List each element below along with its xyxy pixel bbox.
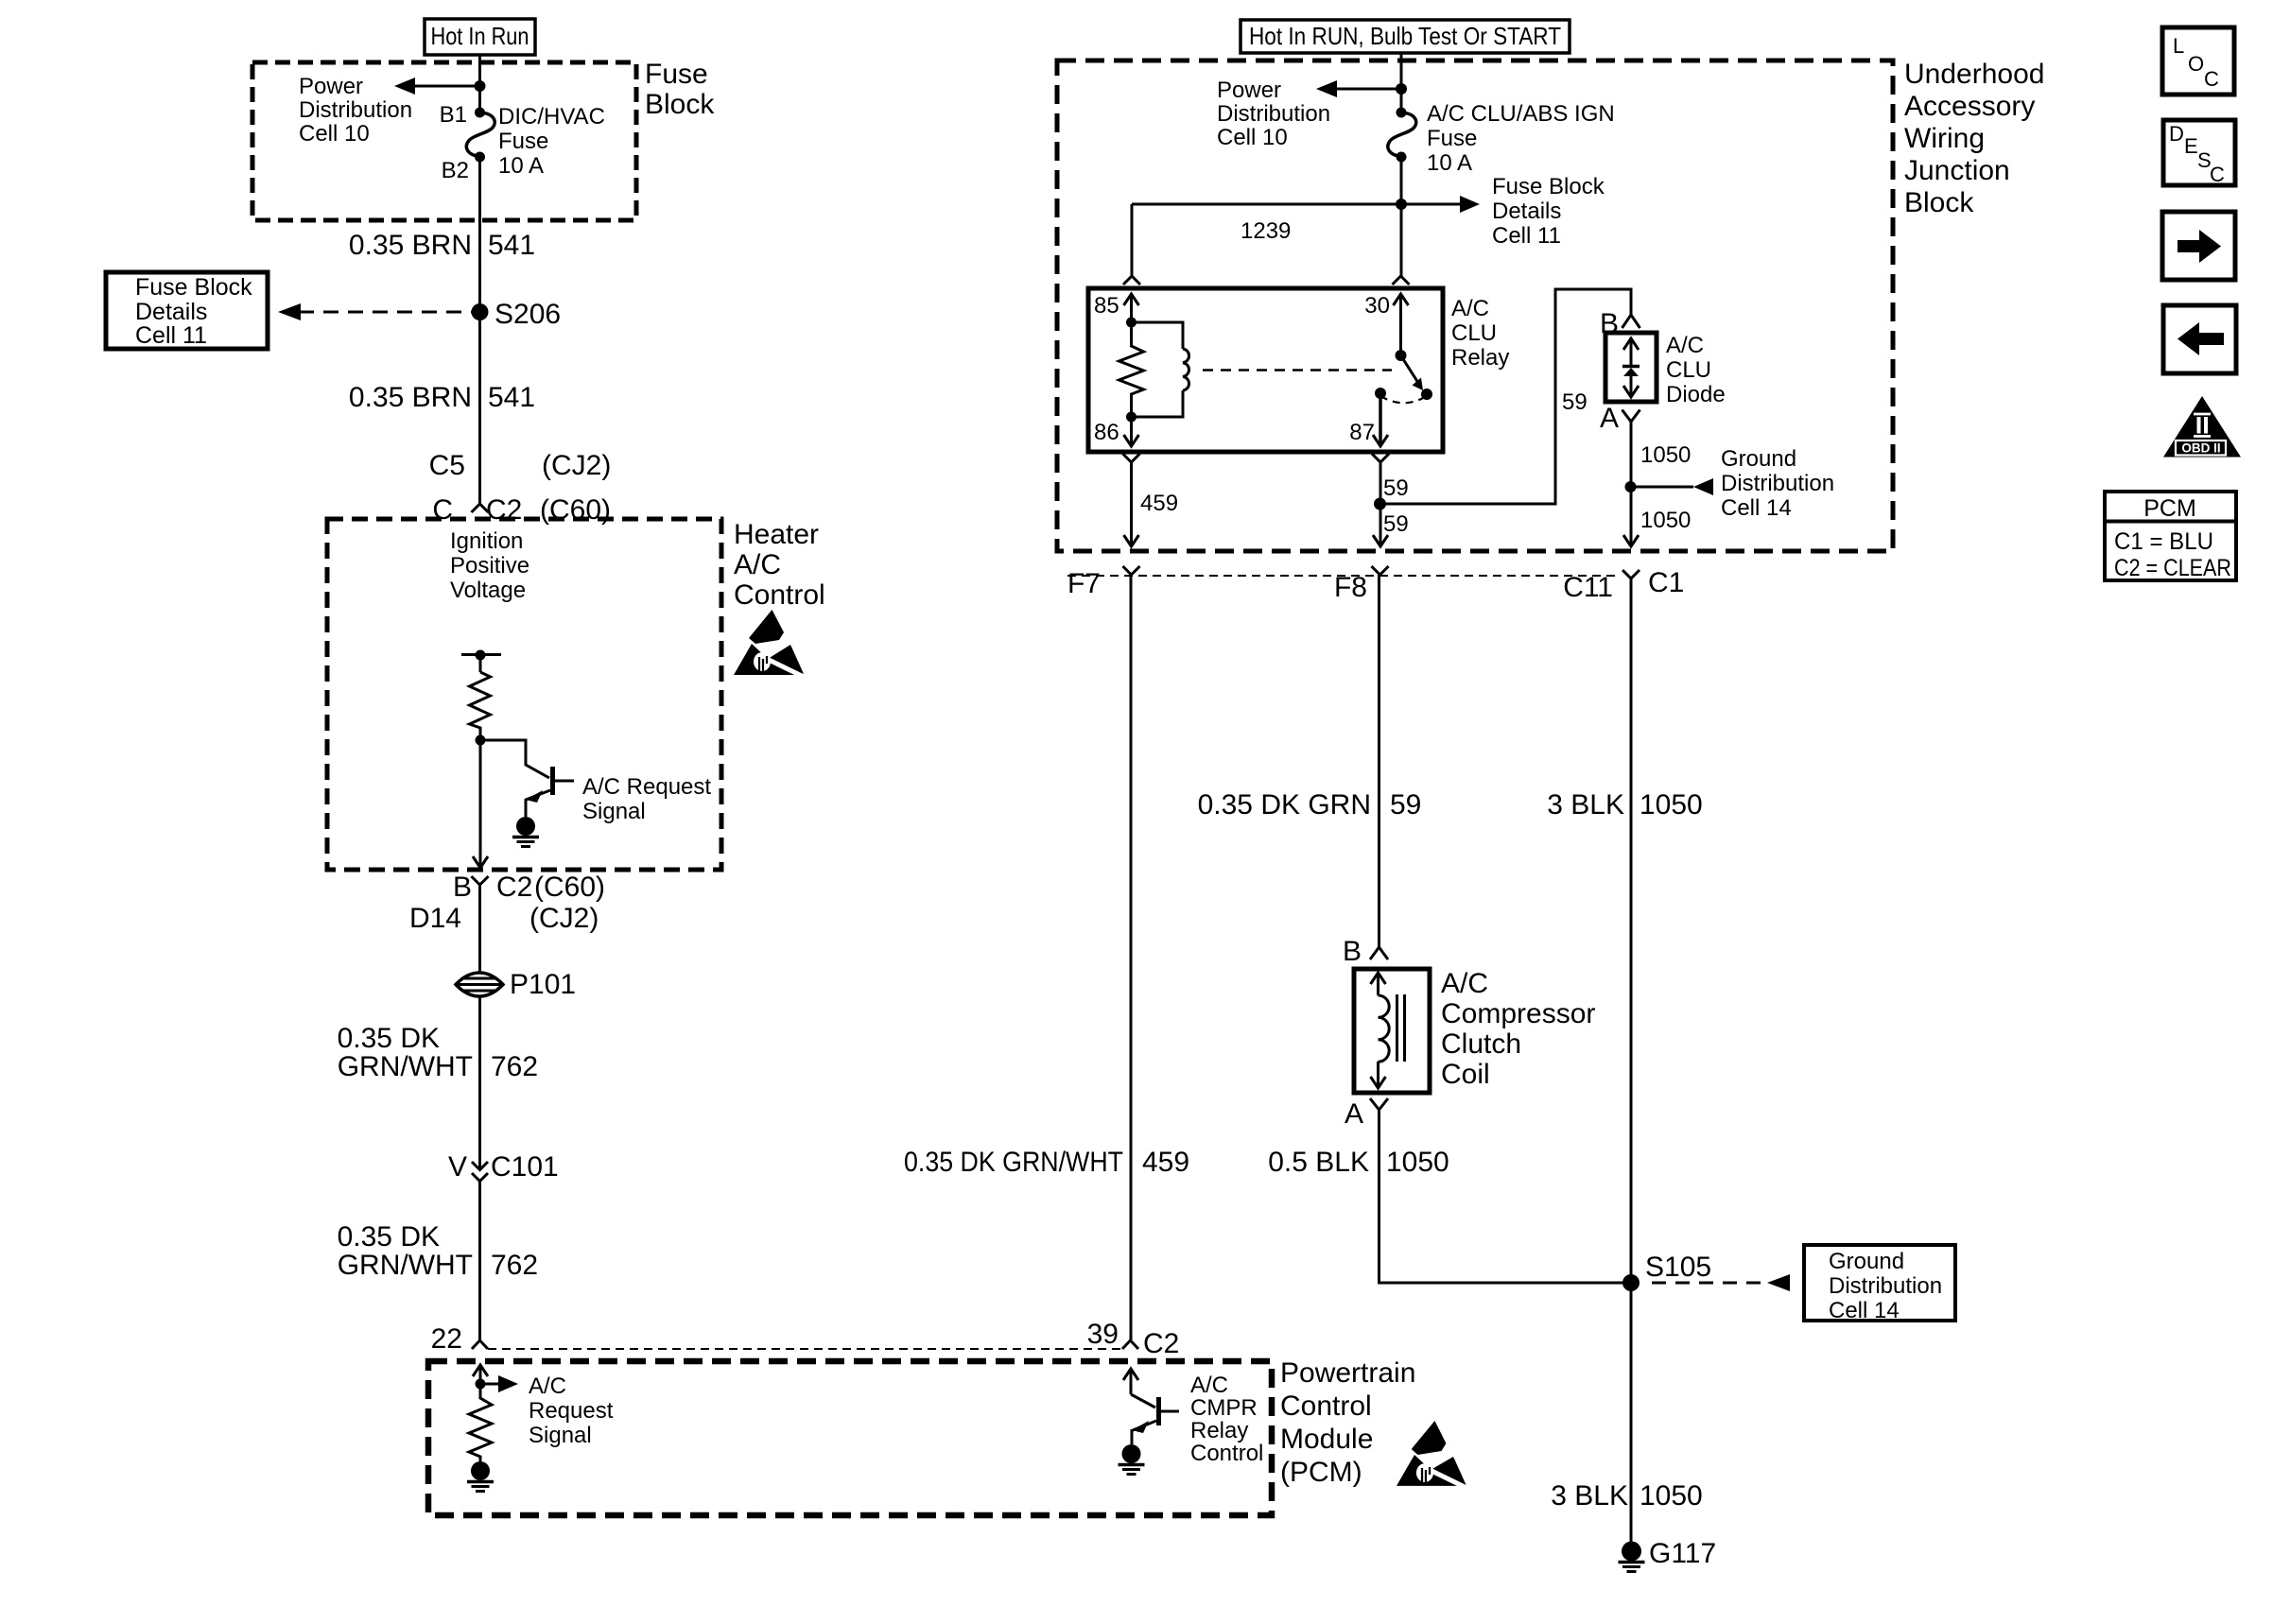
- pin 30 arrow: [1364, 293, 1408, 355]
- relay switch arm: [1396, 350, 1433, 400]
- label Fuse Block: [645, 59, 715, 120]
- wire 59 F8 to coil pin B: [1378, 575, 1380, 947]
- label A/C CLU Diode: [1666, 333, 1726, 407]
- svg-text:Voltage: Voltage: [450, 578, 526, 603]
- svg-text:B1: B1: [440, 102, 467, 128]
- svg-text:Relay: Relay: [1451, 345, 1509, 371]
- ref arrow Fuse Block Details Cell 11 (right): [1132, 174, 1605, 249]
- svg-text:1239: 1239: [1241, 218, 1291, 244]
- svg-text:DIC/HVAC: DIC/HVAC: [498, 104, 605, 130]
- legend icon back arrow: [2163, 305, 2236, 373]
- svg-text:CLU: CLU: [1666, 357, 1711, 383]
- svg-text:Signal: Signal: [582, 799, 646, 824]
- pin 22 connector: [431, 1323, 488, 1355]
- label 0.35 BRN 541 (upper): [349, 230, 535, 261]
- svg-text:1050: 1050: [1640, 1480, 1703, 1512]
- ground (PCM input): [467, 1461, 494, 1492]
- svg-text:S105: S105: [1645, 1252, 1711, 1283]
- connector boundary dashed line (PCM C2): [488, 1348, 1122, 1350]
- relay K A/C CLU Relay (box): [1088, 288, 1443, 452]
- svg-text:3 BLK: 3 BLK: [1551, 1480, 1628, 1512]
- svg-text:D14: D14: [409, 903, 461, 934]
- label Ignition Positive Voltage: [450, 528, 529, 603]
- svg-text:Power: Power: [299, 74, 363, 99]
- svg-text:(CJ2): (CJ2): [529, 903, 599, 934]
- ref arrow Power Distribution Cell 10: [394, 78, 479, 95]
- svg-text:Module: Module: [1280, 1424, 1373, 1455]
- wire hot-in-run to fuse B1: [478, 54, 481, 112]
- wire 59 to junction node: [1380, 462, 1409, 504]
- label A/C Request Signal (heater): [582, 774, 711, 824]
- svg-text:A/C: A/C: [1666, 333, 1704, 358]
- svg-text:Heater: Heater: [734, 519, 819, 550]
- legend icon LOC: [2162, 27, 2234, 95]
- Heater A/C Control module (dashed box): [327, 519, 721, 870]
- splice S105: [1622, 1252, 1711, 1291]
- svg-text:GRN/WHT: GRN/WHT: [338, 1250, 473, 1281]
- transistor Q (A/C request): [526, 767, 574, 817]
- svg-text:59: 59: [1562, 389, 1588, 415]
- svg-text:Cell 14: Cell 14: [1721, 495, 1792, 521]
- ground G117: [1619, 1538, 1717, 1572]
- svg-text:86: 86: [1094, 420, 1119, 445]
- node junction 59 branch: [1374, 498, 1386, 510]
- pin B1: [440, 102, 485, 128]
- wire request signal down with arrow: [473, 740, 488, 868]
- label 0.35 DK GRN/WHT 762 (upper): [338, 1023, 538, 1082]
- svg-text:10 A: 10 A: [498, 153, 544, 179]
- svg-text:541: 541: [488, 230, 535, 261]
- svg-text:762: 762: [491, 1051, 538, 1082]
- relay coil winding: [1132, 322, 1189, 417]
- svg-text:Fuse: Fuse: [498, 129, 548, 154]
- svg-text:Compressor: Compressor: [1441, 998, 1595, 1029]
- connector chevron relay pin 30: [1393, 276, 1410, 285]
- svg-text:(PCM): (PCM): [1280, 1457, 1362, 1488]
- svg-text:CMPR: CMPR: [1190, 1395, 1258, 1421]
- legend box PCM connectors: [2105, 492, 2236, 581]
- ground (PCM output): [1119, 1444, 1145, 1475]
- svg-text:GRN/WHT: GRN/WHT: [338, 1051, 473, 1082]
- node junction below resistor: [476, 735, 486, 746]
- svg-text:30: 30: [1364, 293, 1390, 319]
- svg-text:Fuse: Fuse: [1427, 126, 1477, 151]
- svg-text:G117: G117: [1649, 1538, 1716, 1569]
- Underhood Accessory Wiring Junction Block (dashed box): [1057, 60, 1893, 551]
- wire 1050 to box edge with arrow: [1623, 487, 1691, 546]
- splice S206: [472, 299, 562, 330]
- svg-text:0.35 BRN: 0.35 BRN: [349, 382, 472, 413]
- svg-text:Accessory: Accessory: [1904, 91, 2035, 122]
- legend icon OBD II triangle: [2163, 396, 2241, 458]
- svg-text:(C60): (C60): [534, 872, 605, 903]
- power label box Hot In Run: [425, 19, 535, 55]
- connector chevron below relay pin 87: [1372, 454, 1389, 462]
- svg-text:Cell 10: Cell 10: [1217, 125, 1288, 150]
- wire branch down to relay pin 85: [1131, 204, 1134, 276]
- svg-text:Distribution: Distribution: [1829, 1273, 1942, 1299]
- svg-text:0.35 DK GRN: 0.35 DK GRN: [1198, 789, 1371, 821]
- wire 1050 coil A to S105: [1379, 1110, 1632, 1283]
- svg-text:59: 59: [1390, 789, 1421, 821]
- fuse DIC/HVAC 10 A: [466, 104, 605, 179]
- svg-text:Clutch: Clutch: [1441, 1028, 1521, 1060]
- svg-text:A/C: A/C: [734, 549, 781, 580]
- svg-text:A/C: A/C: [1451, 296, 1489, 321]
- svg-text:C2 = CLEAR: C2 = CLEAR: [2114, 555, 2231, 581]
- svg-text:A: A: [1600, 403, 1619, 434]
- svg-text:C101: C101: [491, 1151, 559, 1183]
- svg-text:Powertrain: Powertrain: [1280, 1357, 1415, 1389]
- fuse A/C CLU/ABS IGN 10 A: [1388, 101, 1615, 176]
- label 0.35 DK GRN 59: [1198, 789, 1422, 821]
- svg-text:Cell 10: Cell 10: [299, 121, 370, 147]
- svg-text:Hot In RUN, Bulb Test Or START: Hot In RUN, Bulb Test Or START: [1249, 22, 1561, 50]
- svg-text:0.5 BLK: 0.5 BLK: [1268, 1147, 1369, 1178]
- connector F8: [1334, 566, 1389, 603]
- svg-text:Block: Block: [645, 89, 715, 120]
- pin 86 arrow: [1094, 417, 1139, 446]
- ESD symbol (PCM): [1397, 1421, 1468, 1489]
- label 3 BLK 1050 (lower): [1551, 1480, 1702, 1512]
- svg-text:1050: 1050: [1640, 508, 1691, 533]
- svg-text:CLU: CLU: [1451, 320, 1497, 346]
- svg-text:459: 459: [1140, 491, 1178, 516]
- node junction pin22: [476, 1379, 486, 1390]
- svg-text:B: B: [1343, 936, 1362, 967]
- dashed throw arc to pin 87: [1380, 396, 1425, 403]
- ground (heater internal): [512, 817, 539, 847]
- svg-text:C2: C2: [496, 872, 532, 903]
- wire 762 P101 to C101: [478, 996, 481, 1169]
- pin 39 connector C2: [1087, 1319, 1180, 1359]
- svg-text:10 A: 10 A: [1427, 150, 1472, 176]
- svg-text:Ignition: Ignition: [450, 528, 523, 554]
- legend icon forward arrow: [2162, 212, 2235, 280]
- connector chevron below relay pin 86: [1123, 454, 1140, 462]
- svg-text:Positive: Positive: [450, 553, 529, 579]
- svg-text:F8: F8: [1334, 572, 1367, 603]
- svg-text:Details: Details: [135, 299, 207, 325]
- svg-text:E: E: [2184, 134, 2198, 158]
- svg-text:Signal: Signal: [529, 1423, 592, 1448]
- svg-text:Distribution: Distribution: [1721, 471, 1834, 496]
- svg-text:Ground: Ground: [1829, 1249, 1904, 1274]
- svg-text:PCM: PCM: [2143, 495, 2196, 522]
- svg-text:Fuse Block: Fuse Block: [1492, 174, 1605, 199]
- node coil bottom junction: [1126, 412, 1136, 423]
- svg-text:A/C Request: A/C Request: [582, 774, 711, 800]
- svg-text:S206: S206: [495, 299, 561, 330]
- label Powertrain Control Module (PCM): [1280, 1357, 1415, 1488]
- ref box Ground Distribution Cell 14: [1804, 1245, 1955, 1323]
- connector chevron diode pin A: [1600, 403, 1640, 436]
- svg-text:OBD II: OBD II: [2181, 441, 2220, 456]
- node junction at A/C fuse feed: [1396, 83, 1407, 95]
- svg-text:Cell 11: Cell 11: [1492, 223, 1561, 249]
- wire 762 C101 to PCM pin 22: [478, 1182, 481, 1341]
- svg-text:Distribution: Distribution: [299, 97, 412, 123]
- label A/C Compressor Clutch Coil: [1441, 968, 1595, 1090]
- svg-text:Ground: Ground: [1721, 446, 1796, 472]
- node junction 1239 branch: [1396, 199, 1407, 210]
- wire 1050 C1 down: [1630, 579, 1633, 1283]
- svg-text:C5: C5: [429, 450, 465, 481]
- svg-text:1050: 1050: [1640, 442, 1691, 468]
- svg-text:Junction: Junction: [1904, 155, 2010, 186]
- svg-text:1050: 1050: [1640, 789, 1703, 821]
- pass-through grommet P101: [456, 969, 576, 1000]
- A/C Compressor Clutch Coil (box): [1354, 969, 1430, 1093]
- svg-text:459: 459: [1142, 1147, 1189, 1178]
- wire 1050 diode to junction: [1631, 436, 1691, 487]
- wire hot feed into junction block: [1400, 53, 1403, 112]
- connector chevron coil pin B: [1343, 936, 1388, 967]
- svg-text:C1: C1: [1648, 567, 1684, 598]
- wire 459 to box edge with arrow: [1124, 462, 1179, 546]
- svg-text:P101: P101: [510, 969, 576, 1000]
- svg-text:Underhood: Underhood: [1904, 59, 2044, 90]
- svg-text:Control: Control: [1190, 1441, 1263, 1466]
- svg-text:87: 87: [1349, 420, 1375, 445]
- svg-text:(CJ2): (CJ2): [542, 450, 611, 481]
- pin 87 arrow: [1349, 388, 1388, 446]
- svg-text:F7: F7: [1067, 568, 1101, 599]
- svg-text:Coil: Coil: [1441, 1059, 1490, 1090]
- svg-text:Request: Request: [529, 1398, 614, 1424]
- svg-text:Wiring: Wiring: [1904, 123, 1985, 154]
- ref arrow A/C Request Signal (right): [480, 1373, 614, 1448]
- svg-text:V: V: [448, 1151, 467, 1183]
- fuse block (dashed box): [252, 62, 636, 220]
- label A/C CLU Relay: [1451, 296, 1509, 371]
- diode D A/C CLU Diode (box): [1605, 333, 1657, 402]
- svg-text:0.35 DK: 0.35 DK: [338, 1221, 440, 1253]
- pin 39 input arrow (up): [1123, 1369, 1138, 1394]
- svg-text:B: B: [453, 872, 472, 903]
- svg-text:B2: B2: [442, 158, 469, 183]
- wire 459 F7 to PCM pin 39: [1130, 575, 1133, 1340]
- connector C11 / C1: [1563, 567, 1684, 603]
- power label box Hot In RUN, Bulb Test Or START: [1241, 20, 1570, 53]
- svg-text:Diode: Diode: [1666, 382, 1726, 407]
- connector chevron coil pin A: [1345, 1098, 1388, 1130]
- svg-text:59: 59: [1383, 475, 1409, 501]
- svg-text:Control: Control: [734, 579, 825, 611]
- svg-text:C: C: [2210, 163, 2225, 186]
- label 3 BLK 1050 (upper): [1547, 789, 1702, 821]
- wire 762 to P101: [478, 899, 481, 974]
- svg-text:A/C: A/C: [1441, 968, 1488, 999]
- wire 59 down to box edge with arrow: [1373, 504, 1409, 546]
- svg-text:0.35 DK GRN/WHT: 0.35 DK GRN/WHT: [904, 1147, 1123, 1178]
- connector boundary dashed line (junction block): [1067, 575, 1621, 577]
- svg-text:A/C: A/C: [529, 1373, 566, 1399]
- relay coil resistor: [1119, 322, 1144, 417]
- wire 1050 S105 to G117: [1630, 1283, 1633, 1542]
- relay actuation dashed link: [1203, 369, 1392, 371]
- svg-text:Distribution: Distribution: [1217, 101, 1330, 127]
- svg-text:22: 22: [431, 1323, 462, 1355]
- label Power Distribution Cell 10: [299, 74, 412, 147]
- node junction ground ref: [1625, 481, 1637, 492]
- svg-text:Cell 11: Cell 11: [135, 322, 207, 349]
- svg-text:0.35 BRN: 0.35 BRN: [349, 230, 472, 261]
- connector B C2 (C60) D14 (CJ2): [409, 872, 605, 934]
- svg-text:85: 85: [1094, 293, 1119, 319]
- connector chevron relay pin 85: [1123, 276, 1140, 285]
- svg-text:3 BLK: 3 BLK: [1547, 789, 1624, 821]
- node coil top junction: [1126, 318, 1136, 328]
- svg-text:C1 = BLU: C1 = BLU: [2114, 528, 2213, 555]
- wire fuse to branch node: [1400, 157, 1403, 276]
- ref arrow Ground Distribution Cell 14 (underhood): [1631, 446, 1835, 521]
- svg-text:0.35 DK: 0.35 DK: [338, 1023, 440, 1054]
- label 0.35 DK GRN/WHT 762 (lower): [338, 1221, 538, 1281]
- svg-text:D: D: [2169, 122, 2184, 146]
- label Underhood Accessory Wiring Junction Block: [1904, 59, 2044, 218]
- svg-text:Cell 14: Cell 14: [1829, 1298, 1900, 1323]
- svg-text:59: 59: [1383, 511, 1409, 537]
- svg-text:1050: 1050: [1386, 1147, 1449, 1178]
- label Power Distribution Cell 10 (right): [1217, 78, 1330, 150]
- connector chevron diode pin B: [1600, 308, 1640, 339]
- connector F7: [1067, 566, 1140, 599]
- svg-text:Fuse Block: Fuse Block: [135, 274, 252, 301]
- ref box Fuse Block Details Cell 11: [106, 272, 268, 349]
- svg-text:O: O: [2188, 52, 2204, 76]
- pin 85 arrow: [1094, 293, 1139, 322]
- ref dashed arrow to Fuse Block Details: [278, 303, 473, 320]
- svg-text:C2: C2: [1143, 1328, 1179, 1359]
- svg-text:39: 39: [1087, 1319, 1119, 1350]
- internal supply T-bar: [461, 650, 501, 673]
- wire 541 lower segment: [478, 312, 481, 504]
- ESD symbol (heater): [734, 610, 806, 678]
- svg-text:C11: C11: [1563, 572, 1613, 603]
- label A/C CMPR Relay Control: [1190, 1373, 1263, 1466]
- svg-text:Fuse: Fuse: [645, 59, 708, 90]
- label 0.5 BLK 1050: [1268, 1147, 1449, 1178]
- legend icon DESC: [2163, 120, 2235, 186]
- svg-text:Control: Control: [1280, 1391, 1372, 1422]
- svg-text:Block: Block: [1904, 187, 1974, 218]
- connector C101: [448, 1151, 559, 1183]
- svg-text:541: 541: [488, 382, 535, 413]
- coil winding symbol: [1371, 973, 1405, 1088]
- transistor Q (A/C CMPR relay control): [1132, 1397, 1179, 1444]
- wire 541 upper segment: [478, 157, 481, 312]
- wire 59 branch to diode B: [1380, 289, 1632, 504]
- diode symbol: [1622, 338, 1640, 397]
- svg-text:A/C CLU/ABS IGN: A/C CLU/ABS IGN: [1427, 101, 1615, 127]
- ref arrow Power Distribution Cell 10 (right): [1316, 80, 1401, 97]
- svg-text:762: 762: [491, 1250, 538, 1281]
- Powertrain Control Module (dashed box): [428, 1361, 1272, 1515]
- label Heater A/C Control: [734, 519, 825, 611]
- connector C5 C2 (C60)(CJ2): [429, 450, 612, 526]
- svg-text:A/C: A/C: [1190, 1373, 1228, 1398]
- label 0.35 BRN 541 (lower): [349, 382, 535, 413]
- pin B2: [442, 152, 485, 184]
- svg-text:A: A: [1345, 1098, 1363, 1130]
- svg-text:Hot In Run: Hot In Run: [431, 22, 529, 50]
- svg-text:Details: Details: [1492, 199, 1561, 224]
- wire pcm collector lead: [1131, 1394, 1155, 1408]
- resistor (heater pull-up): [470, 672, 491, 740]
- svg-text:Relay: Relay: [1190, 1418, 1248, 1443]
- label 0.35 DK GRN/WHT 459: [904, 1147, 1189, 1178]
- resistor (PCM input): [469, 1384, 492, 1461]
- node junction at fuse feed: [475, 80, 486, 92]
- pin 22 input arrow (up): [473, 1365, 488, 1384]
- svg-text:Power: Power: [1217, 78, 1281, 103]
- wire collector lead: [480, 740, 549, 778]
- svg-text:C: C: [2204, 67, 2219, 91]
- svg-text:L: L: [2173, 34, 2184, 58]
- ref dashed arrow to Ground Distribution Cell 14: [1652, 1274, 1790, 1291]
